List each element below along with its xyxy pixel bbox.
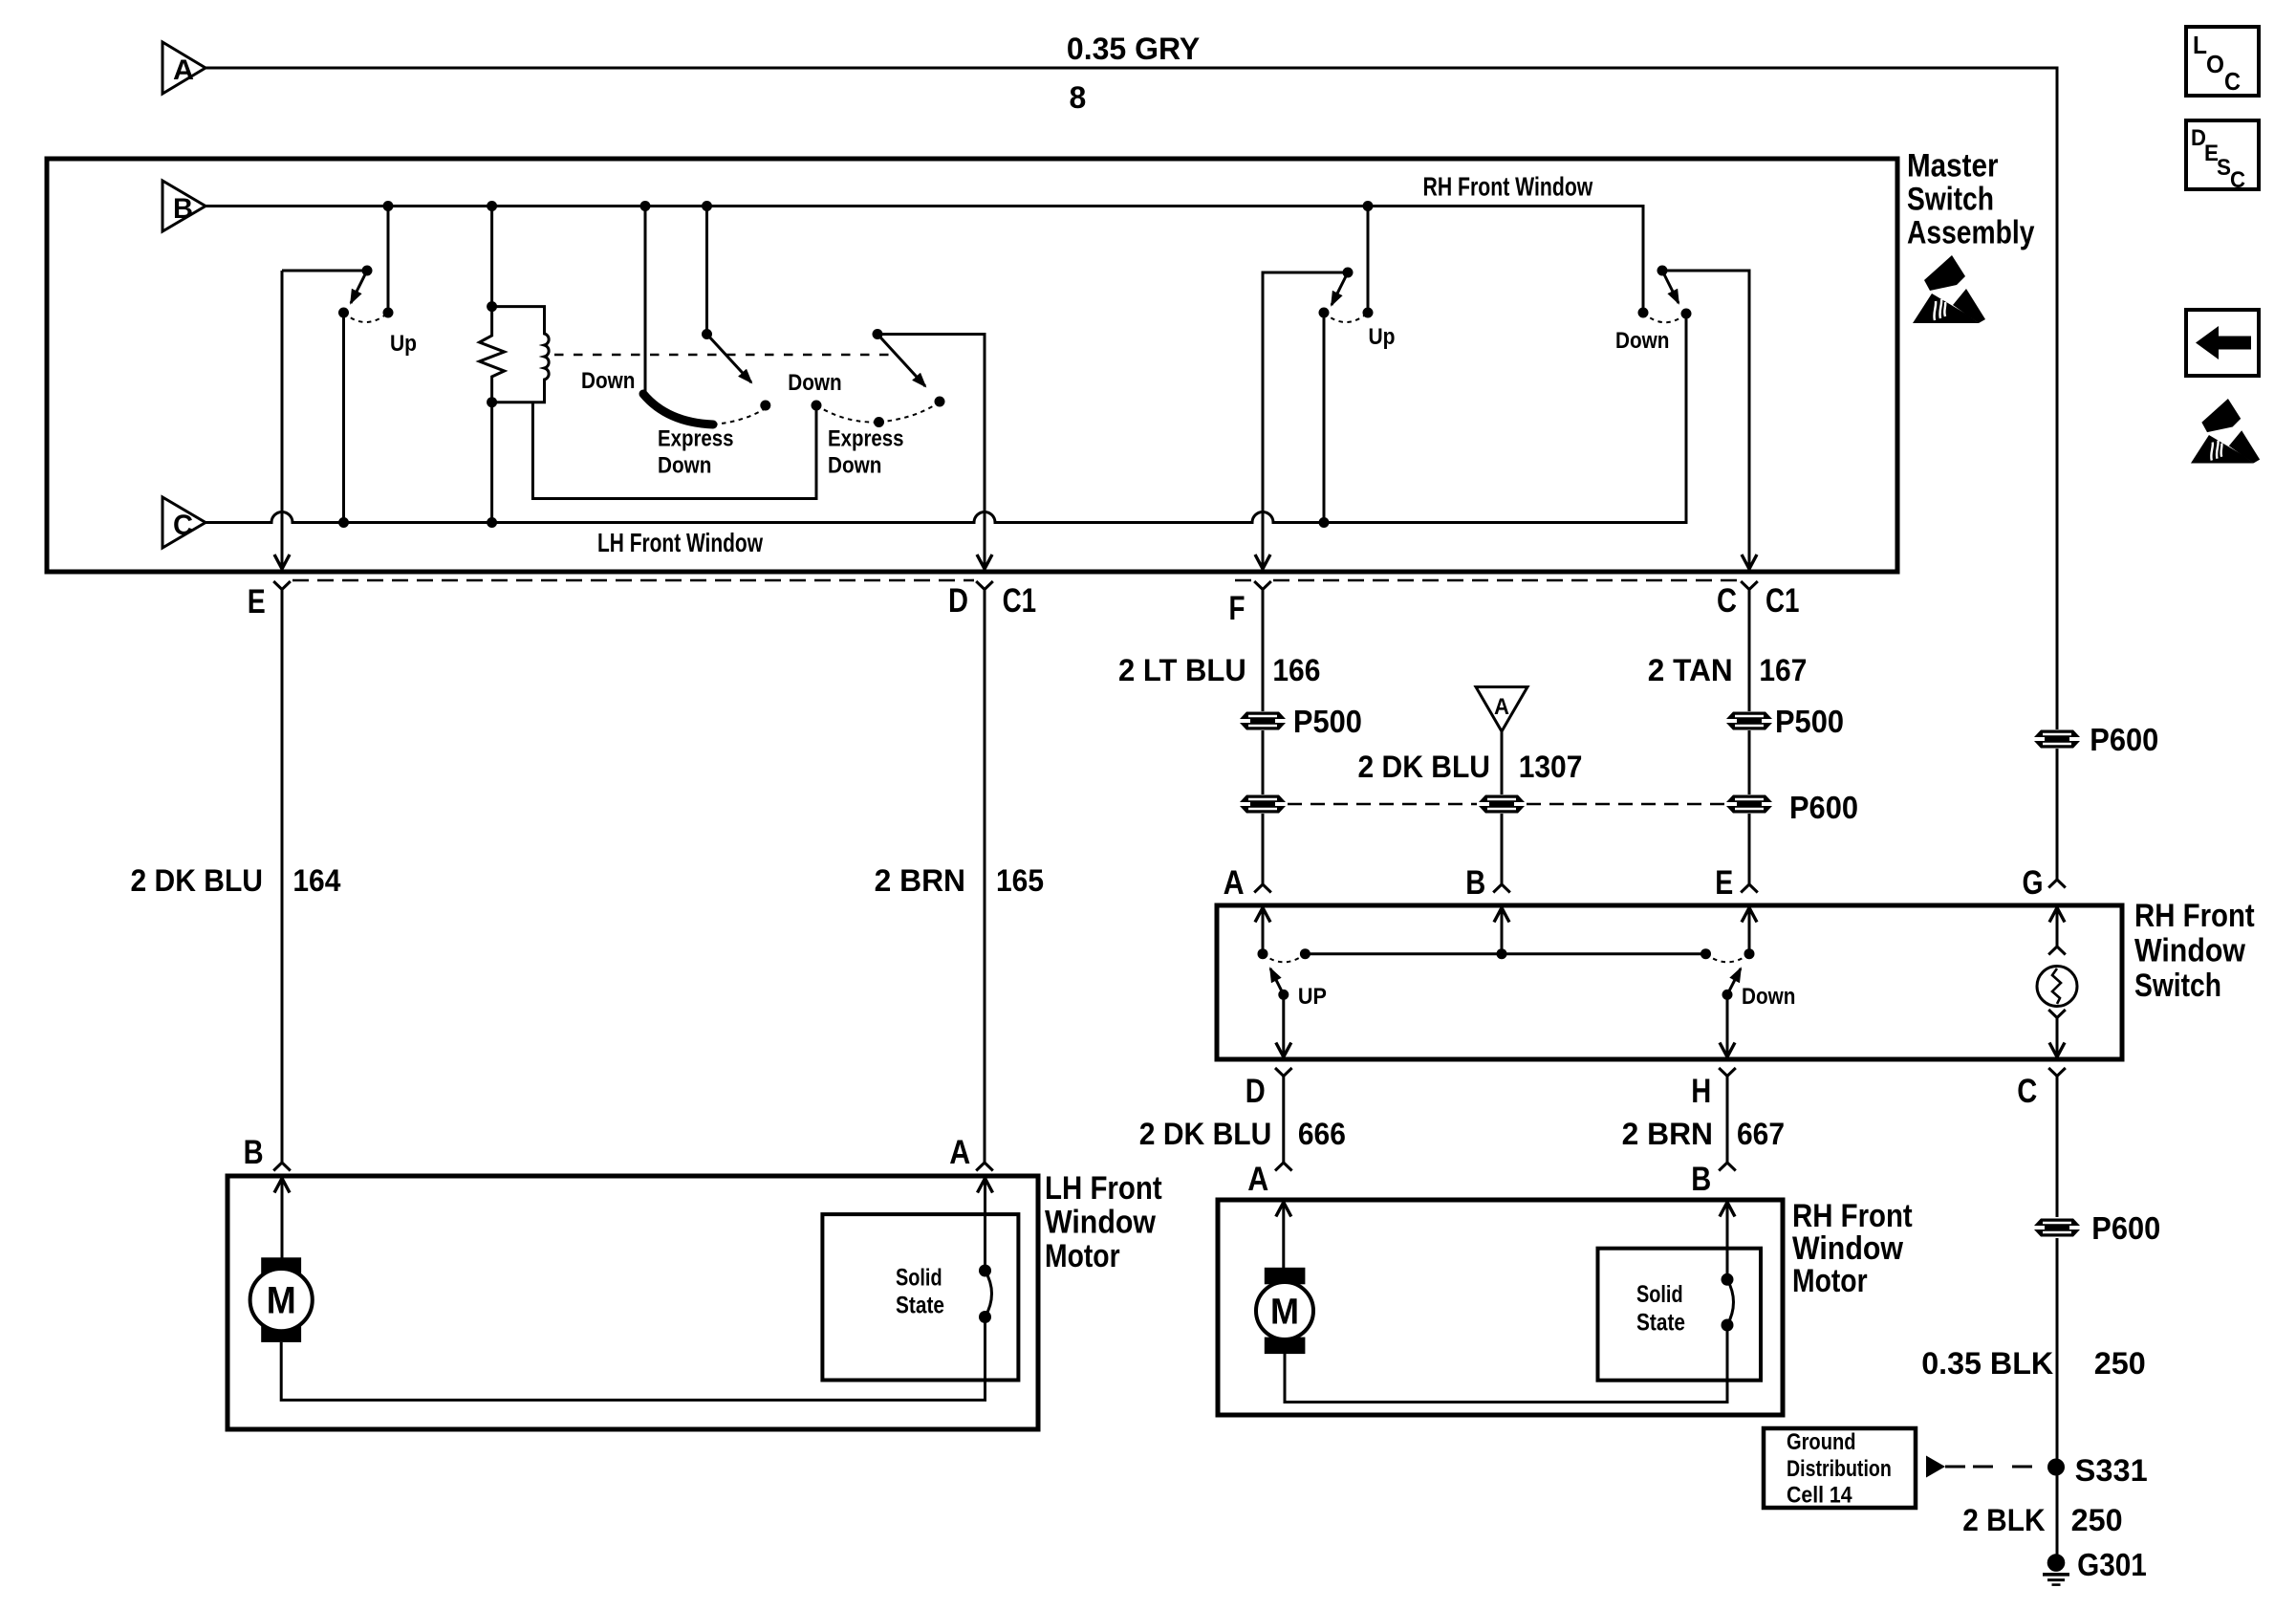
pin E fork	[273, 581, 291, 590]
ESD warning symbol (master switch)	[1913, 255, 1985, 323]
RH control pivot and output wire	[877, 335, 985, 570]
RH switch UP dashed arc	[1263, 954, 1305, 963]
svg-text:L: L	[2193, 31, 2207, 59]
pin D fork	[976, 581, 993, 590]
RH switch Down blade	[1722, 990, 1733, 1000]
svg-text:167: 167	[1759, 653, 1807, 687]
connector triangle A (mid feed)	[1476, 687, 1527, 732]
svg-text:C1: C1	[1765, 582, 1800, 620]
svg-text:O: O	[2206, 50, 2224, 78]
svg-text:Down: Down	[788, 370, 841, 396]
pin H fork (RH switch)	[1719, 1068, 1736, 1077]
wire E output (LH motor B) inside box	[281, 271, 284, 569]
LH down switch blade	[707, 335, 752, 383]
svg-text:B: B	[244, 1134, 264, 1171]
pin D output wire	[1282, 994, 1285, 1056]
RH switch pin E fork	[1741, 884, 1758, 893]
svg-text:2 DK BLU: 2 DK BLU	[1139, 1117, 1272, 1151]
reference arrow to S331	[1926, 1456, 1945, 1478]
wire 0.35 GRY circuit 8 (A to right column)	[206, 68, 2057, 729]
svg-text:G: G	[2023, 864, 2044, 902]
wire 2 DK BLU 164 (E to LH motor B)	[281, 590, 284, 1164]
svg-text:P500: P500	[1293, 704, 1362, 739]
wire B bus (battery feed inside master switch)	[206, 207, 1643, 314]
wire 2 BRN 165 (D to LH motor A)	[984, 590, 986, 1164]
RH up switch common wire / F output	[1263, 272, 1348, 569]
DESC legend box	[2186, 120, 2259, 189]
label circuit 8	[1070, 80, 1087, 115]
RH control blade	[877, 335, 925, 387]
svg-text:Down: Down	[658, 452, 711, 478]
svg-text:P600: P600	[1789, 790, 1858, 825]
svg-text:Express: Express	[828, 426, 904, 452]
svg-text:H: H	[1691, 1073, 1711, 1110]
illumination lamp	[2049, 908, 2065, 923]
back arrow legend box	[2186, 310, 2259, 376]
RH up switch blade	[1332, 272, 1348, 305]
svg-text:2 BRN: 2 BRN	[875, 863, 965, 898]
wire 2 DK BLU 666	[1282, 1077, 1285, 1164]
svg-text:A: A	[173, 54, 194, 86]
connector P600 (BLK)	[2034, 1219, 2080, 1227]
svg-text:0.35 GRY: 0.35 GRY	[1067, 32, 1200, 66]
svg-text:S331: S331	[2075, 1453, 2148, 1488]
wire module to C bus	[490, 402, 493, 523]
svg-text:E: E	[1715, 864, 1733, 902]
svg-text:C: C	[2224, 67, 2241, 96]
LH up switch dashed throw arc	[344, 313, 389, 322]
svg-text:D: D	[948, 582, 968, 620]
svg-text:E: E	[248, 583, 266, 620]
connector triangle A (0.35 GRY feed)	[162, 42, 206, 94]
svg-text:2 TAN: 2 TAN	[1648, 653, 1733, 687]
wire 2 BRN 667	[1726, 1077, 1729, 1164]
motor M2 (RH window motor)	[1265, 1268, 1306, 1285]
svg-text:8: 8	[1070, 80, 1087, 115]
svg-text:165: 165	[996, 863, 1044, 898]
wire motor to solid state return	[281, 1316, 985, 1400]
svg-text:B: B	[1465, 864, 1485, 902]
RH motor pin B fork	[1719, 1163, 1736, 1171]
LH motor pin A fork	[976, 1163, 993, 1171]
wire 0.35 BLK 250 (C to ground)	[2056, 1077, 2059, 1563]
svg-text:LH Front: LH Front	[1045, 1170, 1162, 1207]
svg-text:C: C	[2230, 167, 2245, 193]
relay coil (express-down module)	[492, 307, 550, 402]
circuit breaker contacts (RH)	[1722, 1273, 1734, 1286]
svg-text:Distribution: Distribution	[1787, 1456, 1892, 1482]
svg-text:Down: Down	[1742, 984, 1795, 1010]
svg-text:B: B	[173, 193, 193, 225]
RH up switch dashed arc	[1324, 313, 1368, 322]
connector triangle C	[162, 497, 206, 548]
RH Front Window Switch box	[1217, 905, 2122, 1059]
LH down switch thick contact strip	[643, 394, 713, 424]
svg-text:Window: Window	[1045, 1205, 1156, 1241]
LOC legend box	[2186, 27, 2259, 96]
svg-text:M: M	[267, 1280, 296, 1322]
LH down switch pivot stub	[705, 207, 708, 335]
svg-text:LH Front Window: LH Front Window	[597, 528, 763, 557]
connector triangle B	[162, 181, 206, 231]
RH down switch pivot, common wire / C output	[1662, 271, 1749, 569]
svg-text:P500: P500	[1775, 704, 1844, 739]
svg-text:666: 666	[1298, 1117, 1346, 1151]
wire 2 LT BLU 166 (F to RH switch A)	[1262, 590, 1265, 885]
internal bus wire	[1305, 952, 1705, 955]
svg-text:2 DK BLU: 2 DK BLU	[131, 863, 264, 898]
svg-text:Motor: Motor	[1045, 1238, 1120, 1274]
Solid State module (LH)	[822, 1214, 1018, 1380]
wire pin A to solid state	[978, 1179, 993, 1193]
wire up-contact to C bus	[342, 313, 345, 523]
svg-text:Switch: Switch	[2134, 968, 2221, 1004]
connector P600 (GRY)	[2034, 730, 2080, 738]
svg-text:Window: Window	[1792, 1230, 1903, 1267]
svg-text:2 LT BLU: 2 LT BLU	[1118, 653, 1246, 687]
dashed harness line through P600 row	[1288, 803, 1477, 806]
RH motor pin A fork	[1275, 1163, 1292, 1171]
RH Front Window Motor box	[1218, 1200, 1783, 1415]
pin C fork (RH switch)	[2048, 1068, 2066, 1077]
svg-text:G301: G301	[2077, 1547, 2147, 1582]
LH down switch dashed arc	[713, 409, 764, 424]
svg-text:Down: Down	[581, 368, 635, 394]
svg-text:A: A	[949, 1134, 970, 1171]
LH up switch blade	[351, 271, 367, 303]
connector P500 (LT BLU)	[1240, 712, 1286, 720]
LH down switch feed stub	[644, 207, 647, 395]
LH Front Window Motor box	[227, 1176, 1038, 1429]
splice S331	[2047, 1459, 2065, 1476]
svg-text:2 BRN: 2 BRN	[1622, 1117, 1713, 1151]
RH control dashed arc	[816, 405, 879, 423]
svg-text:S: S	[2217, 155, 2231, 181]
resistor (express-down module)	[480, 207, 505, 402]
svg-text:RH Front: RH Front	[1792, 1198, 1913, 1234]
pin E entry arrow + wire	[1742, 908, 1757, 923]
RH switch UP blade	[1278, 990, 1289, 1000]
pin C fork	[1741, 581, 1758, 590]
connector P600 (DK BLU)	[1479, 795, 1525, 803]
svg-text:164: 164	[292, 863, 340, 898]
LH up switch common wire	[282, 270, 367, 272]
dashed detent linkage line	[554, 354, 896, 356]
svg-text:250: 250	[2094, 1346, 2146, 1381]
dashed connector C1 face	[292, 579, 974, 582]
RH up switch left contact to C bus	[1319, 308, 1330, 318]
motor M1 (LH window motor)	[261, 1257, 301, 1277]
pin B entry arrow + wire	[1494, 908, 1509, 923]
wire pin B to solid state (RH)	[1720, 1203, 1735, 1217]
svg-text:250: 250	[2071, 1503, 2123, 1537]
RH switch pin A fork	[1254, 884, 1271, 893]
RH switch pin B fork	[1493, 884, 1510, 893]
junction dots on B bus	[383, 201, 394, 211]
svg-text:2 BLK: 2 BLK	[1962, 1503, 2045, 1537]
LH up switch feed stub	[387, 207, 390, 314]
svg-text:B: B	[1691, 1161, 1711, 1198]
Ground Distribution callout box	[1764, 1428, 1916, 1508]
circuit breaker contacts (LH)	[979, 1265, 991, 1277]
svg-text:166: 166	[1272, 653, 1320, 687]
svg-text:Solid: Solid	[896, 1264, 942, 1291]
connector P600 (TAN)	[1726, 795, 1772, 803]
svg-text:2 DK BLU: 2 DK BLU	[1358, 750, 1491, 784]
svg-text:State: State	[1636, 1310, 1685, 1337]
LH up switch contacts	[338, 308, 349, 318]
pin H output wire	[1726, 994, 1729, 1056]
svg-text:A: A	[1494, 694, 1509, 720]
svg-text:P600: P600	[2091, 1210, 2160, 1246]
svg-text:0.35 BLK: 0.35 BLK	[1921, 1346, 2053, 1381]
svg-text:RH Front Window: RH Front Window	[1423, 172, 1593, 202]
svg-text:Down: Down	[1615, 328, 1669, 354]
svg-text:Window: Window	[2134, 933, 2245, 969]
svg-text:RH Front: RH Front	[2134, 898, 2255, 934]
RH switch pin G fork	[2056, 749, 2059, 880]
ESD warning symbol (legend)	[2191, 399, 2260, 463]
LH motor pin B fork	[273, 1163, 291, 1171]
svg-text:State: State	[896, 1293, 944, 1319]
wire 2 TAN 167 (C to RH switch E)	[1748, 590, 1751, 885]
svg-text:C1: C1	[1003, 582, 1037, 620]
wire 2 DK BLU 1307	[1501, 731, 1504, 884]
svg-text:M: M	[1270, 1293, 1299, 1333]
svg-text:Solid: Solid	[1636, 1281, 1683, 1308]
svg-text:Down: Down	[828, 452, 881, 478]
svg-text:1307: 1307	[1519, 750, 1583, 784]
pin A entry arrow + wire	[1255, 908, 1270, 923]
svg-text:Up: Up	[390, 331, 417, 357]
Master Switch Assembly box	[47, 159, 1897, 572]
RH control down contact dot	[812, 401, 822, 411]
ground G301	[2047, 1554, 2066, 1572]
svg-text:Cell 14: Cell 14	[1787, 1483, 1852, 1509]
wire express-down return (L shape)	[532, 402, 816, 499]
RH up switch feed stub	[1367, 207, 1370, 314]
connector P600 (LT BLU)	[1240, 795, 1286, 803]
RH down switch left contact dot (from B bus)	[1638, 308, 1649, 318]
svg-text:Switch: Switch	[1907, 182, 1994, 218]
svg-text:Assembly: Assembly	[1907, 214, 2034, 250]
svg-text:F: F	[1229, 590, 1245, 627]
svg-text:Express: Express	[658, 426, 734, 452]
svg-text:A: A	[1247, 1161, 1268, 1198]
svg-text:C: C	[2017, 1073, 2037, 1110]
connector P500 (TAN)	[1726, 712, 1772, 720]
svg-text:C: C	[173, 510, 193, 541]
RH down switch dashed arc	[1643, 313, 1686, 322]
svg-text:C: C	[1717, 582, 1737, 620]
svg-text:D: D	[1245, 1073, 1266, 1110]
wire motor to solid state return (RH)	[1285, 1325, 1727, 1403]
RH down switch blade	[1662, 271, 1679, 303]
pin D fork (RH switch)	[1275, 1068, 1292, 1077]
pin F fork	[1254, 581, 1271, 590]
svg-text:UP: UP	[1298, 984, 1327, 1010]
svg-text:Ground: Ground	[1787, 1429, 1856, 1455]
wire C bus (ground return) with hops	[206, 315, 1686, 523]
svg-text:Master: Master	[1907, 147, 1999, 184]
svg-text:Motor: Motor	[1792, 1263, 1868, 1299]
svg-text:A: A	[1224, 864, 1245, 902]
RH switch Down dashed arc	[1706, 954, 1750, 963]
Solid State module (RH)	[1598, 1249, 1762, 1381]
wire pin B to motor	[281, 1179, 284, 1263]
svg-text:667: 667	[1737, 1117, 1785, 1151]
svg-text:P600: P600	[2090, 722, 2158, 757]
svg-text:Up: Up	[1369, 324, 1396, 350]
